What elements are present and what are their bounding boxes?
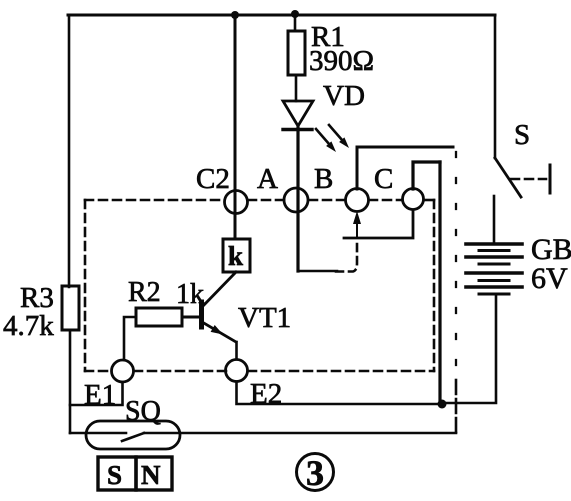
svg-text:k: k [228, 241, 243, 271]
switch S upper wire [494, 15, 497, 158]
svg-text:C2: C2 [196, 163, 230, 195]
svg-text:S: S [514, 119, 530, 151]
svg-text:390Ω: 390Ω [309, 45, 374, 77]
wire into reed left [70, 432, 126, 435]
transistor VT1 emitter [202, 322, 236, 342]
resistor R3 body [62, 286, 79, 330]
battery plate long 4 [466, 285, 522, 289]
LED light arrow 2 [329, 125, 345, 143]
node E1 [112, 360, 134, 382]
diode VD triangle [283, 101, 313, 126]
node junction dot top-left branch [231, 11, 239, 19]
wire right return lower segment to bottom rail [455, 380, 458, 433]
battery plate short 4 [479, 293, 509, 296]
wire left rail below R3 [69, 330, 72, 433]
svg-text:VT1: VT1 [238, 302, 291, 334]
wire R1 to diode [295, 75, 298, 101]
reed blade [122, 433, 144, 441]
svg-text:N: N [141, 460, 161, 490]
switch S dashed actuator link [511, 178, 546, 181]
resistor R2 body [136, 308, 182, 326]
switch S lower wire [493, 196, 496, 244]
resistor R1 body [288, 31, 305, 75]
svg-text:VD: VD [323, 80, 365, 112]
node B [346, 189, 369, 212]
battery plate long 3 [466, 271, 522, 275]
dashed movable blade near A [336, 240, 357, 272]
svg-text:6V: 6V [531, 262, 568, 295]
wire battery negative return [446, 294, 496, 403]
node junction dot R1 branch [291, 10, 299, 18]
node C [403, 189, 424, 210]
transistor VT1 base bar [199, 302, 204, 327]
wire k box to collector [203, 272, 236, 306]
svg-text:S: S [107, 460, 122, 490]
svg-text:C: C [374, 163, 393, 195]
switch S blade [495, 158, 521, 197]
arrow below node B pointing up [356, 218, 358, 238]
wire reed right to bottom rail [144, 432, 456, 435]
diode VD cathode bar [283, 128, 312, 131]
wire hook from node C up and right [413, 162, 440, 189]
wire branch down to C2 [234, 15, 237, 238]
dashed enclosure left edge [84, 200, 87, 371]
wire R2 to base [182, 316, 199, 319]
wire left vertical rail [68, 15, 71, 287]
node C2 [225, 191, 248, 214]
battery GB plate long 1 [466, 242, 522, 246]
svg-text:SQ: SQ [125, 396, 161, 427]
svg-text:1k: 1k [176, 279, 204, 310]
wire E1 bottom stub [70, 382, 123, 405]
wire hook from node B up and right [357, 147, 453, 189]
reed switch SQ capsule [86, 421, 180, 449]
dashed enclosure right edge [433, 200, 436, 371]
svg-text:A: A [257, 163, 278, 195]
wire E2 bottom to junction [237, 382, 441, 405]
magnet N pole box [136, 457, 172, 490]
svg-text:R2: R2 [128, 277, 161, 308]
node A [284, 188, 308, 212]
svg-text:E2: E2 [250, 378, 282, 410]
relay coil k box [223, 239, 250, 272]
dashed enclosure top edge [85, 199, 224, 202]
node E2 [226, 360, 248, 382]
figure number circle [297, 454, 334, 491]
svg-text:4.7k: 4.7k [3, 310, 54, 342]
node junction dot bottom [438, 400, 447, 409]
transistor emitter arrowhead [211, 325, 223, 335]
LED light arrow 1 [316, 129, 332, 147]
wire node C bottom to bar [344, 210, 413, 238]
battery plate long 2 [466, 255, 522, 259]
svg-text:B: B [314, 163, 333, 195]
wire top horizontal rail [68, 14, 495, 17]
wire R2 left to E1 [124, 317, 136, 360]
wire from A bottom corner to right [298, 270, 337, 273]
battery plate short 3 [479, 279, 509, 282]
battery plate short 1 [479, 249, 509, 252]
wire long vertical x=440 down to junction [438, 162, 441, 403]
wire emitter to E2 [235, 342, 238, 359]
wire R1 top lead [294, 15, 297, 31]
wire node C right stub [424, 199, 434, 202]
switch S actuator T-bar [549, 165, 552, 193]
svg-text:E1: E1 [84, 379, 116, 411]
dashed enclosure bottom edge [85, 370, 111, 373]
svg-text:3: 3 [306, 453, 324, 493]
magnet S pole box [98, 457, 136, 490]
battery plate short 2 [479, 263, 509, 266]
wire diode to node A (through circle) [296, 128, 299, 271]
wire dashed vertical right side (B hook down to bottom) [455, 152, 457, 375]
